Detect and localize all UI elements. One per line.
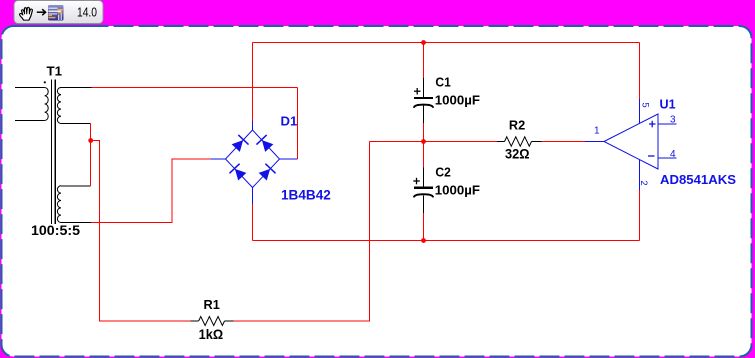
- junction middle rail / C1 / C2: [421, 139, 426, 144]
- R2 label: [509, 118, 525, 133]
- R2 value 32ohm: [505, 146, 530, 161]
- in-use-list (purple mixer) icon: [48, 5, 64, 21]
- resistor R2: [497, 137, 542, 146]
- svg-text:4: 4: [670, 149, 676, 160]
- wire: bridge bottom vertex to bottom rail: [252, 204, 254, 241]
- transformer T1 ratio label 100:5:5: [31, 222, 80, 238]
- wire: middle rail drop: [234, 142, 370, 322]
- wire: drop to bridge right vertex: [297, 88, 299, 160]
- wire: bridge top vertex to top rail: [252, 43, 254, 122]
- transformer T1 primary top terminal: [15, 87, 45, 89]
- svg-text:100:5:5: 100:5:5: [31, 222, 80, 238]
- op-amp pin 3 lead: [658, 123, 676, 125]
- wire: secondary B bottom to bridge left: [91, 159, 211, 223]
- pin number 3: [670, 115, 676, 126]
- svg-text:R1: R1: [204, 297, 220, 312]
- wire: middle rail left segment and drop to R1 right: [370, 141, 497, 143]
- wire: C1 bottom to middle rail (red): [423, 123, 425, 142]
- R1 value 1kohm: [199, 327, 224, 342]
- junction center tap: [88, 138, 93, 143]
- C2 label: [435, 164, 450, 179]
- transformer T1 secondary winding A: [57, 87, 61, 123]
- svg-text:3: 3: [670, 115, 676, 126]
- wire: op-amp pin 2 drop to bottom rail: [639, 190, 641, 241]
- transformer T1 secondary A bottom terminal: [61, 123, 91, 125]
- op-amp pin 5 lead: [639, 99, 641, 123]
- svg-text:R2: R2: [509, 118, 525, 133]
- svg-text:C2: C2: [435, 164, 450, 179]
- wire: center tap vertical: [90, 124, 92, 186]
- transformer T1 primary winding: [45, 88, 49, 121]
- R1 label: [204, 297, 220, 312]
- svg-text:5: 5: [640, 102, 651, 107]
- junction top rail / C1: [421, 40, 426, 45]
- capacitor C1: [414, 78, 433, 123]
- pin number 5 (rotated): [640, 102, 651, 107]
- svg-text:AD8541AKS: AD8541AKS: [660, 172, 736, 187]
- bridge label D1: [281, 114, 298, 129]
- diode D1a (left-top edge): [231, 135, 249, 153]
- svg-text:C1: C1: [435, 75, 450, 90]
- transformer T1 label: [47, 64, 63, 79]
- transformer T1 secondary A top terminal: [61, 87, 92, 89]
- wire: C1 top (red): [423, 43, 425, 79]
- svg-text:1kΩ: 1kΩ: [199, 327, 224, 342]
- svg-text:32Ω: 32Ω: [505, 146, 530, 161]
- zoom level label 14.0: [77, 5, 97, 20]
- pin number 1: [594, 126, 600, 137]
- wire: R2 right to op-amp pin 1: [542, 141, 586, 143]
- op-amp value AD8541AKS: [660, 172, 736, 187]
- resistor R1: [191, 317, 234, 326]
- svg-text:14.0: 14.0: [77, 5, 97, 20]
- transformer T1 secondary winding B: [57, 186, 61, 223]
- wire: C2 bottom to bottom rail (red): [423, 213, 425, 241]
- C1 label: [435, 75, 450, 90]
- junction bottom rail / C2: [421, 238, 426, 243]
- transformer T1 secondary B bottom terminal: [61, 222, 91, 224]
- svg-text:1B4B42: 1B4B42: [281, 187, 331, 203]
- C2 value 1000uF: [435, 183, 480, 198]
- transformer T1 core: [52, 80, 56, 225]
- svg-text:D1: D1: [281, 114, 298, 129]
- wire: secondary A top to bridge right (horizontal): [92, 87, 298, 89]
- transformer T1 primary phase dot: [44, 81, 46, 83]
- solid border run under toolbar: [11, 25, 106, 27]
- diode D1b (right-top edge): [256, 135, 274, 153]
- C1 value 1000uF: [435, 93, 480, 108]
- C2 plus sign: [413, 178, 420, 185]
- wire: C2 top (red): [423, 142, 425, 168]
- wire: top rail drop to op-amp pin 5: [639, 43, 641, 100]
- op-amp label U1: [660, 97, 676, 112]
- op-amp pin 1 lead: [585, 141, 604, 143]
- svg-text:2: 2: [638, 180, 649, 185]
- wire: center tap branch to R1: [91, 141, 191, 322]
- op-amp pin 4 lead: [658, 157, 676, 159]
- wire: top rail: [253, 42, 640, 44]
- bridge value 1B4B42: [281, 187, 331, 203]
- transformer T1 secondary B top terminal: [61, 185, 91, 187]
- wire: bottom rail: [253, 240, 640, 242]
- svg-text:T1: T1: [47, 64, 63, 79]
- pin number 4: [670, 149, 676, 160]
- C1 plus sign: [414, 88, 421, 95]
- op-amp plus input marker: [649, 121, 656, 128]
- arrow icon: [37, 9, 46, 15]
- pin number 2 (rotated): [638, 180, 649, 185]
- op-amp minus input marker: [648, 155, 655, 157]
- transformer T1 primary bottom terminal: [15, 120, 45, 122]
- toolbar panel: [14, 1, 103, 24]
- svg-text:1000µF: 1000µF: [435, 183, 480, 198]
- svg-text:U1: U1: [660, 97, 676, 112]
- op-amp U1 triangle: [604, 114, 658, 169]
- svg-text:1: 1: [594, 126, 600, 137]
- diode bridge D1 diamond: [211, 121, 298, 204]
- diode D1c (left-bottom edge): [229, 164, 247, 182]
- diode D1d (right-bottom edge): [258, 164, 276, 182]
- svg-text:1000µF: 1000µF: [435, 93, 480, 108]
- hand (pan) cursor icon: [20, 7, 33, 20]
- op-amp pin 2 lead: [639, 160, 641, 190]
- capacitor C2: [414, 167, 433, 213]
